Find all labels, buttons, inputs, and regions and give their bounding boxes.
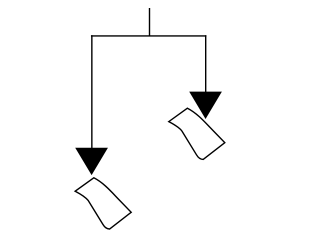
node: left document (75, 178, 131, 229)
wire: left branch (91, 35, 93, 150)
node: right document (169, 108, 225, 159)
wire: top stub (149, 8, 151, 36)
arrowhead: right (189, 92, 222, 119)
wire: horizontal bus (91, 35, 206, 37)
wire: right branch (205, 35, 207, 93)
arrowhead: left (75, 148, 108, 175)
